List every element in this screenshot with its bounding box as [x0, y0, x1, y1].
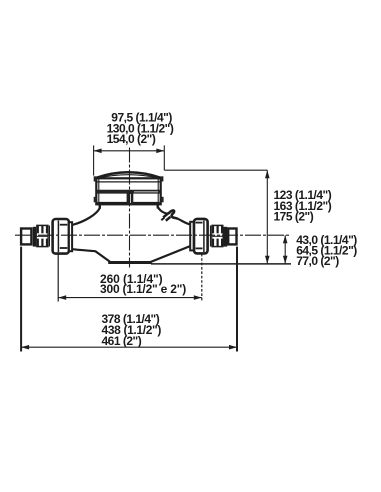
right thread bars	[212, 225, 224, 247]
horizontal pipe centerline	[15, 234, 290, 236]
top reference line to right dims	[164, 169, 267, 171]
dim 154 extension right	[163, 145, 165, 170]
right union nut	[194, 219, 208, 254]
right thread block	[212, 225, 223, 246]
left pipe flange bar	[33, 227, 36, 247]
dim line 43/64/77	[284, 235, 286, 264]
right pipe end	[228, 229, 236, 245]
dim line 154	[94, 150, 165, 152]
right pipe flange bar	[223, 227, 227, 247]
dim line 123/163/175	[266, 170, 268, 264]
cap corner tabs	[94, 176, 164, 202]
dim 461 extension right	[236, 247, 238, 352]
dim line 260/300	[58, 297, 202, 299]
bottom reference line	[151, 263, 291, 265]
left pipe end	[21, 229, 31, 245]
body flat bottom	[108, 261, 152, 264]
dim 300 extension right (dashed)	[201, 254, 203, 302]
seal wire squiggle	[166, 210, 178, 218]
left thread bars	[37, 225, 49, 247]
left union nut	[53, 219, 69, 254]
svg-text:300 (1.1/2" e 2"): 300 (1.1/2" e 2")	[100, 282, 186, 296]
dim line 378/438/461	[21, 346, 237, 348]
dim 154 extension left	[93, 145, 95, 175]
vertical centerline	[129, 148, 131, 268]
left tail flange	[69, 222, 72, 251]
register cap dome outer	[96, 172, 160, 178]
body bottom-left cone	[72, 249, 110, 261]
register cap ring	[96, 178, 160, 204]
svg-text:77,0 (2"): 77,0 (2")	[296, 254, 339, 268]
dim 461 extension left	[20, 247, 22, 352]
right tail flange	[190, 222, 194, 251]
svg-text:461 (2"): 461 (2")	[102, 334, 142, 348]
cap center hinge	[127, 190, 134, 204]
right collar	[210, 226, 212, 247]
body top-left cone	[72, 205, 100, 226]
right thread mid band	[212, 233, 222, 238]
dim 300 extension left	[57, 254, 59, 301]
body top-right with seal squiggle	[158, 205, 167, 214]
left thread block	[37, 225, 48, 246]
register cap dome inner	[98, 175, 159, 179]
svg-text:154,0 (2"): 154,0 (2")	[107, 132, 156, 146]
svg-text:175 (2"): 175 (2")	[274, 210, 314, 224]
neck sides	[99, 204, 101, 208]
left thread mid band	[37, 233, 47, 238]
left collar	[48, 226, 50, 247]
cap ring bottom thick edge	[98, 202, 160, 205]
body bottom-right diagonal	[151, 246, 191, 262]
